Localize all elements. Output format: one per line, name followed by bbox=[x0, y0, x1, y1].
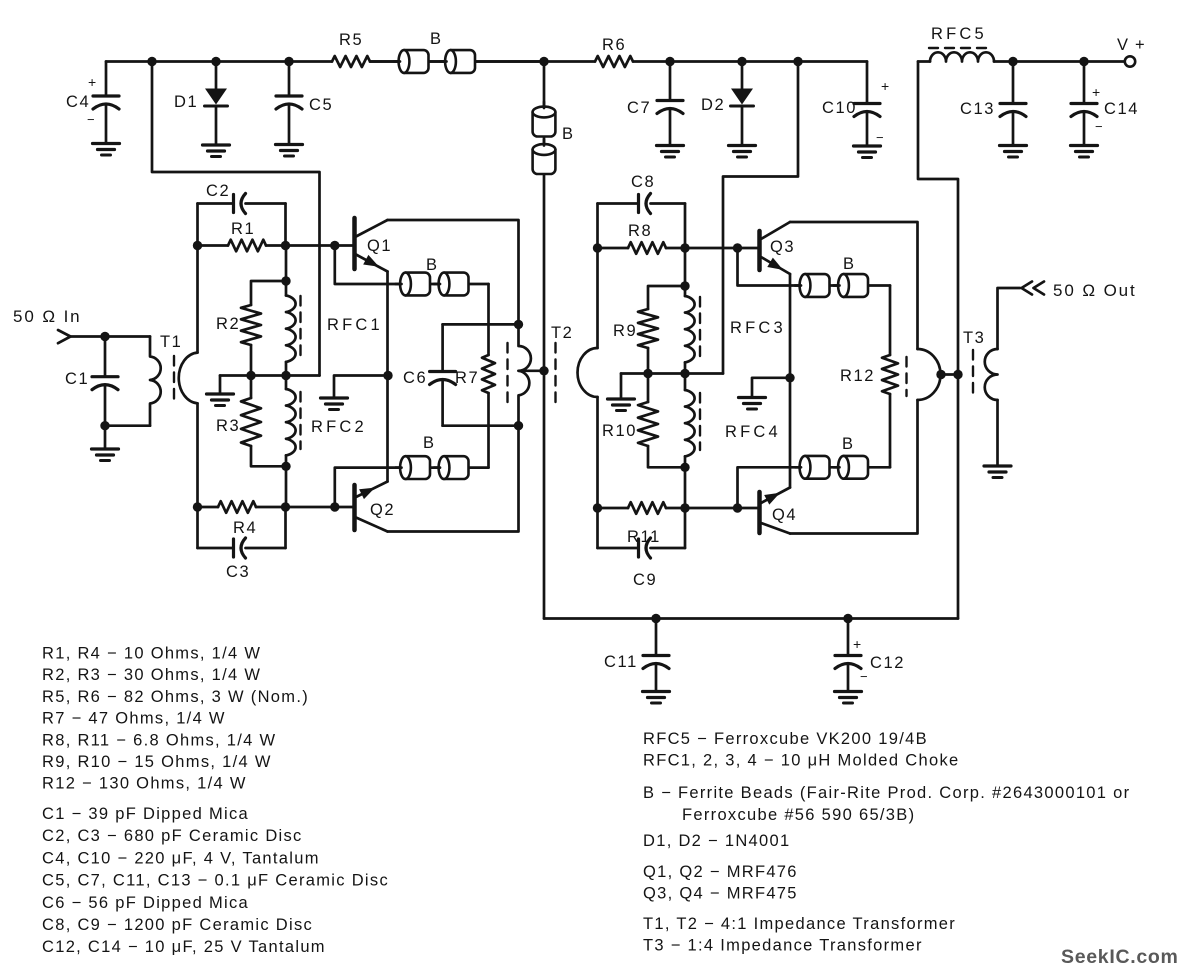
svg-text:D1, D2 − 1N4001: D1, D2 − 1N4001 bbox=[643, 832, 790, 850]
resistor R6 bbox=[544, 60, 595, 63]
choke RFC1 bbox=[285, 246, 288, 296]
transformer T2 secondary winding bbox=[578, 348, 598, 397]
terminal V+ bbox=[1125, 56, 1135, 66]
node centre top rail bbox=[539, 57, 548, 66]
svg-text:C5, C7, C11, C13 − 0.1 μF Cera: C5, C7, C11, C13 − 0.1 μF Ceramic Disc bbox=[42, 872, 389, 890]
svg-text:R3: R3 bbox=[216, 417, 240, 435]
wire Q2 collector bbox=[388, 426, 519, 532]
ground D2 bbox=[729, 144, 756, 147]
core dashes RFC5 bbox=[929, 47, 988, 49]
wire bottom supply rail bbox=[544, 617, 958, 620]
wire RFC joint bbox=[285, 362, 288, 389]
svg-text:C8: C8 bbox=[631, 173, 655, 191]
wire base Q3 bead drop bbox=[738, 248, 891, 286]
wire feedback box top rail bbox=[443, 323, 519, 326]
svg-text:+: + bbox=[853, 636, 861, 652]
svg-text:B: B bbox=[430, 30, 443, 48]
resistor R11 bbox=[593, 503, 602, 512]
capacitor C9 bbox=[598, 547, 639, 550]
svg-text:−: − bbox=[860, 669, 868, 684]
svg-text:Q3, Q4 − MRF475: Q3, Q4 − MRF475 bbox=[643, 885, 798, 903]
svg-text:Q4: Q4 bbox=[772, 506, 797, 524]
svg-text:R7 − 47 Ohms, 1/4 W: R7 − 47 Ohms, 1/4 W bbox=[42, 710, 226, 728]
resistor R3 bbox=[246, 371, 255, 380]
svg-text:+: + bbox=[1092, 84, 1100, 100]
wire RFC3-4 joint bbox=[684, 362, 687, 390]
svg-text:Q3: Q3 bbox=[770, 238, 795, 256]
capacitor C1 bbox=[100, 332, 109, 341]
svg-text:C13: C13 bbox=[960, 100, 995, 118]
svg-text:50 Ω In: 50 Ω In bbox=[13, 307, 82, 326]
capacitor C13 bbox=[1008, 57, 1017, 66]
core dashes RFC1 bbox=[299, 296, 301, 356]
wire Q3 emitter down bbox=[789, 274, 792, 378]
svg-text:R9: R9 bbox=[613, 322, 637, 340]
inductor RFC5 bbox=[918, 60, 930, 63]
wire stage1 left column bbox=[196, 204, 199, 353]
transformer T3 core dash left bbox=[905, 357, 907, 396]
resistor R10 bbox=[643, 369, 652, 378]
svg-text:RFC2: RFC2 bbox=[311, 418, 367, 436]
choke RFC4 bbox=[685, 390, 695, 456]
ferrite bead B pair (Q4 emitter) bbox=[805, 456, 830, 479]
svg-text:C5: C5 bbox=[309, 96, 333, 114]
wire Q4 emitter up bbox=[789, 378, 792, 488]
wire V+ output rail bbox=[1013, 60, 1129, 63]
ferrite bead B pair (Q2 emitter) bbox=[406, 456, 431, 479]
svg-text:C10: C10 bbox=[822, 99, 857, 117]
resistor R9 bbox=[648, 286, 685, 309]
svg-text:R1, R4 − 10 Ohms, 1/4 W: R1, R4 − 10 Ohms, 1/4 W bbox=[42, 645, 261, 663]
svg-text:B: B bbox=[562, 125, 575, 143]
svg-text:50 Ω Out: 50 Ω Out bbox=[1053, 281, 1137, 300]
ground C10 bbox=[854, 144, 881, 147]
resistor R12 bbox=[882, 355, 898, 394]
node emitters / ground tap stage2 bbox=[785, 373, 794, 382]
wire base Q2 bead rise bbox=[335, 468, 489, 507]
wire stage2 left column bbox=[596, 204, 599, 349]
wire feedback box bottom rail bbox=[443, 424, 519, 427]
svg-text:C2, C3 − 680 pF Ceramic Disc: C2, C3 − 680 pF Ceramic Disc bbox=[42, 827, 303, 845]
resistor R8 bbox=[593, 243, 602, 252]
capacitor C2 bbox=[198, 202, 234, 205]
capacitor C7 bbox=[665, 57, 674, 66]
svg-text:Ferroxcube #56 590 65/3B): Ferroxcube #56 590 65/3B) bbox=[682, 806, 915, 824]
core dashes RFC2 bbox=[299, 392, 301, 449]
svg-text:R5: R5 bbox=[339, 31, 363, 49]
capacitor C4 bbox=[105, 62, 108, 96]
svg-text:B: B bbox=[426, 256, 439, 274]
svg-text:R11: R11 bbox=[627, 528, 661, 546]
svg-text:T3: T3 bbox=[963, 329, 985, 347]
transformer T2 core dash right bbox=[554, 343, 556, 406]
diode D1 bbox=[211, 57, 220, 66]
wire Q1 collector bbox=[388, 220, 519, 324]
ground C7 bbox=[657, 144, 684, 147]
transistor Q3 bbox=[757, 231, 762, 270]
svg-text:B: B bbox=[842, 435, 855, 453]
wire bias feed stage 1 bbox=[152, 62, 320, 376]
svg-text:C9: C9 bbox=[633, 571, 657, 589]
wire C1 to T1 bottom bbox=[100, 421, 109, 430]
svg-text:C12, C14 − 10 μF, 25 V Tantalu: C12, C14 − 10 μF, 25 V Tantalum bbox=[42, 938, 326, 956]
resistor R7 bbox=[482, 355, 495, 393]
svg-text:R2, R3 − 30 Ohms, 1/4 W: R2, R3 − 30 Ohms, 1/4 W bbox=[42, 666, 261, 684]
wire top-left supply rail bbox=[106, 60, 332, 63]
wire top-right rail bbox=[670, 60, 867, 63]
capacitor C6 bbox=[441, 324, 444, 370]
node top rail / bias feed bbox=[147, 57, 156, 66]
svg-text:RFC5 − Ferroxcube VK200 19/4B: RFC5 − Ferroxcube VK200 19/4B bbox=[643, 730, 928, 748]
wire bias feed stage 2 bbox=[723, 62, 798, 374]
svg-text:C7: C7 bbox=[627, 99, 651, 117]
svg-text:C4: C4 bbox=[66, 93, 90, 111]
capacitor C5 bbox=[284, 57, 293, 66]
svg-text:−: − bbox=[87, 112, 95, 127]
ferrite bead B pair (top) bbox=[370, 60, 544, 63]
ground T3 bbox=[984, 464, 1011, 467]
wire supply line through T2 bbox=[543, 371, 546, 619]
transformer T3 primary winding bbox=[918, 349, 941, 400]
resistor R1 bbox=[193, 241, 202, 250]
capacitor C12 bbox=[843, 614, 852, 623]
ground C14 bbox=[1071, 144, 1098, 147]
svg-text:T3 − 1:4 Impedance Transformer: T3 − 1:4 Impedance Transformer bbox=[643, 937, 923, 955]
svg-text:R5, R6 − 82 Ohms, 3 W (Nom.): R5, R6 − 82 Ohms, 3 W (Nom.) bbox=[42, 688, 309, 706]
wire bead row up to R12 bbox=[889, 394, 892, 467]
choke RFC3 bbox=[684, 248, 687, 296]
ferrite bead B pair (Q3 emitter) bbox=[805, 274, 830, 297]
svg-text:−: − bbox=[1095, 119, 1103, 134]
choke RFC2 bbox=[286, 389, 296, 455]
wire centre supply feed down bbox=[543, 62, 546, 371]
ground C5 bbox=[276, 143, 303, 146]
svg-text:R9, R10 − 15 Ohms, 1/4 W: R9, R10 − 15 Ohms, 1/4 W bbox=[42, 753, 272, 771]
svg-text:+: + bbox=[881, 78, 889, 94]
svg-text:B: B bbox=[843, 255, 856, 273]
output 50 ohm terminal bbox=[1022, 282, 1045, 295]
svg-text:R2: R2 bbox=[216, 315, 240, 333]
transformer T3 secondary winding bbox=[985, 349, 998, 400]
ground C4 bbox=[93, 142, 120, 145]
svg-text:D2: D2 bbox=[701, 96, 725, 114]
svg-text:SeekIC.com: SeekIC.com bbox=[1061, 946, 1179, 968]
svg-text:Q1: Q1 bbox=[367, 237, 392, 255]
capacitor C14 bbox=[1079, 57, 1088, 66]
ground stage1 mid row bbox=[219, 376, 222, 394]
svg-text:R4: R4 bbox=[233, 519, 257, 537]
ferrite bead B pair (vertical) bbox=[533, 112, 556, 137]
transformer T3 core dash right bbox=[972, 350, 974, 394]
wire bead row up to R7 bbox=[487, 393, 490, 468]
wire Q2 emitter up bbox=[386, 376, 389, 482]
ground D1 bbox=[203, 143, 230, 146]
transistor Q1 bbox=[352, 218, 357, 269]
diode D2 bbox=[737, 57, 746, 66]
svg-text:D1: D1 bbox=[174, 93, 198, 111]
wire V+ line through T3 to bottom rail bbox=[957, 370, 960, 619]
wire input bbox=[71, 335, 151, 338]
svg-text:C6: C6 bbox=[403, 369, 427, 387]
transistor Q2 bbox=[352, 485, 357, 530]
svg-text:RFC1, 2, 3, 4 − 10 μH Molded C: RFC1, 2, 3, 4 − 10 μH Molded Choke bbox=[643, 752, 959, 770]
svg-text:C1: C1 bbox=[65, 370, 89, 388]
transformer T1 primary winding bbox=[150, 337, 161, 426]
wire RFC5 feed down-jog bbox=[918, 62, 958, 371]
ground stage2 mid row bbox=[620, 374, 623, 399]
ground emitter stage1 bbox=[334, 376, 388, 398]
ground emitter stage2 bbox=[752, 378, 790, 397]
svg-text:C8, C9 − 1200 pF Ceramic Disc: C8, C9 − 1200 pF Ceramic Disc bbox=[42, 916, 313, 934]
wire T2 centre tap bbox=[519, 369, 545, 372]
svg-text:B − Ferrite Beads (Fair-Rite P: B − Ferrite Beads (Fair-Rite Prod. Corp.… bbox=[643, 784, 1130, 802]
resistor R5 bbox=[332, 56, 370, 67]
wire top rail R5 to node bbox=[370, 60, 544, 63]
transformer T1 secondary winding bbox=[179, 353, 198, 404]
svg-text:C12: C12 bbox=[870, 654, 905, 672]
wire T3 centre tap bbox=[936, 370, 945, 379]
svg-text:V +: V + bbox=[1117, 36, 1146, 54]
svg-text:RFC5: RFC5 bbox=[931, 25, 987, 43]
transistor Q4 bbox=[757, 492, 762, 533]
svg-text:R12: R12 bbox=[840, 367, 875, 385]
svg-text:RFC4: RFC4 bbox=[725, 423, 781, 441]
wire bead row down to R12 bbox=[889, 286, 892, 356]
wire base Q1 bead drop bbox=[335, 246, 489, 285]
wire stage2 mid bias row bbox=[621, 372, 723, 375]
capacitor C10 bbox=[866, 62, 869, 103]
svg-text:R8, R11 − 6.8 Ohms, 1/4 W: R8, R11 − 6.8 Ohms, 1/4 W bbox=[42, 731, 276, 749]
svg-text:C1 − 39 pF Dipped Mica: C1 − 39 pF Dipped Mica bbox=[42, 805, 249, 823]
svg-text:RFC3: RFC3 bbox=[730, 319, 786, 337]
wire Q4 collector bbox=[790, 400, 918, 534]
svg-text:C3: C3 bbox=[226, 563, 250, 581]
wire T3 secondary top to output bbox=[998, 288, 1021, 349]
transformer T2 primary winding bbox=[519, 324, 531, 425]
node bias feed stage 2 bbox=[793, 57, 802, 66]
svg-text:R10: R10 bbox=[602, 422, 637, 440]
transformer T2 core dash left bbox=[506, 343, 508, 406]
wire stage1 mid bias row bbox=[220, 374, 320, 377]
capacitor C8 bbox=[598, 202, 639, 205]
svg-text:C11: C11 bbox=[604, 653, 638, 671]
ferrite bead B pair (Q1 emitter) bbox=[406, 273, 431, 296]
svg-text:R1: R1 bbox=[231, 220, 255, 238]
svg-text:B: B bbox=[423, 434, 436, 452]
svg-text:−: − bbox=[876, 130, 884, 145]
svg-text:T2: T2 bbox=[551, 324, 573, 342]
wire T3 secondary bottom to ground bbox=[996, 400, 999, 465]
capacitor C3 bbox=[198, 547, 234, 550]
svg-text:T1, T2 − 4:1 Impedance Transfo: T1, T2 − 4:1 Impedance Transformer bbox=[643, 915, 956, 933]
svg-text:Q1, Q2 − MRF476: Q1, Q2 − MRF476 bbox=[643, 863, 798, 881]
svg-text:C6 − 56 pF Dipped Mica: C6 − 56 pF Dipped Mica bbox=[42, 894, 249, 912]
svg-text:R6: R6 bbox=[602, 36, 626, 54]
core dashes RFC4 bbox=[699, 393, 701, 450]
svg-text:RFC1: RFC1 bbox=[327, 316, 383, 334]
svg-text:T1: T1 bbox=[160, 333, 182, 351]
ground C11 bbox=[643, 690, 670, 693]
resistor R2 bbox=[251, 281, 286, 305]
core dashes RFC3 bbox=[699, 297, 701, 357]
capacitor C11 bbox=[651, 614, 660, 623]
svg-text:C4, C10 − 220 μF, 4 V, Tantalu: C4, C10 − 220 μF, 4 V, Tantalum bbox=[42, 849, 320, 867]
resistor R4 bbox=[193, 502, 202, 511]
node emitters / ground tap bbox=[383, 371, 392, 380]
svg-text:Q2: Q2 bbox=[370, 501, 395, 519]
svg-text:C14: C14 bbox=[1104, 100, 1139, 118]
ground C1 node bbox=[104, 426, 107, 448]
svg-text:C2: C2 bbox=[206, 182, 230, 200]
ground C13 bbox=[1000, 144, 1027, 147]
svg-text:R8: R8 bbox=[628, 222, 652, 240]
wire Q1 emitter down bbox=[386, 272, 389, 376]
wire bead row down to R7 bbox=[487, 284, 490, 355]
svg-text:+: + bbox=[88, 74, 96, 90]
wire base Q4 bead rise bbox=[738, 467, 891, 508]
svg-text:R7: R7 bbox=[455, 369, 479, 387]
svg-text:R12 − 130 Ohms, 1/4 W: R12 − 130 Ohms, 1/4 W bbox=[42, 775, 247, 793]
wire Q3 collector bbox=[790, 222, 918, 349]
ground C12 bbox=[835, 690, 862, 693]
transformer T1 core dashes bbox=[173, 356, 175, 404]
